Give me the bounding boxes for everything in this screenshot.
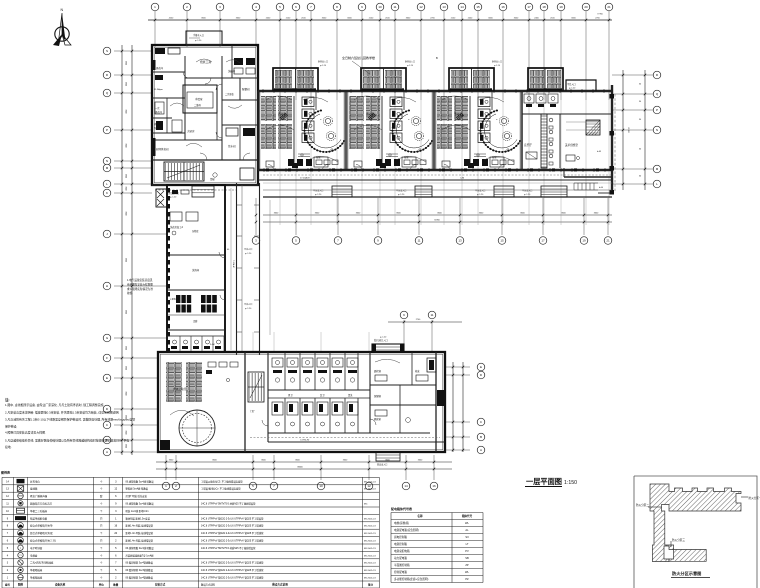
svg-text:19: 19: [582, 239, 586, 243]
classroom unit 3: [434, 68, 522, 170]
svg-text:单相暗插座: 单相暗插座: [30, 576, 43, 580]
grid row E: [114, 377, 158, 379]
grid line 10: [379, 11, 381, 100]
beaded play arc unit 3: [481, 111, 520, 153]
music room wiring: [170, 410, 194, 416]
svg-text:音乐厅: 音乐厅: [524, 143, 532, 147]
svg-text:51960: 51960: [434, 220, 440, 222]
grid row M: [114, 167, 152, 169]
svg-text:电源配电箱(应急照明): 电源配电箱(应急照明): [394, 528, 419, 532]
svg-text:ZP: ZP: [465, 563, 469, 567]
bottom block bottom bubble 12: [368, 455, 370, 480]
grid line 1: [154, 11, 156, 47]
legend row 3: [7, 560, 377, 565]
svg-text:MC-S02-C3: MC-S02-C3: [364, 489, 376, 491]
svg-text:3600: 3600: [125, 430, 127, 434]
bottom block offices: [370, 352, 436, 433]
grid line 12: [420, 11, 422, 100]
svg-text:MC: MC: [364, 504, 368, 506]
svg-text:3600: 3600: [125, 61, 127, 65]
svg-text:3600: 3600: [125, 109, 127, 113]
bottom block washrooms lower row: [268, 393, 370, 433]
corridor-side marks unit 3: [468, 163, 474, 168]
bed arrays unit 1: [261, 96, 276, 121]
lower grid bubble 13: [459, 198, 461, 235]
svg-text:求以现场实际情况为准: 求以现场实际情况为准: [127, 287, 153, 291]
top grid axis dimension line: [148, 19, 612, 21]
bed arrays unit 3: [437, 96, 452, 121]
grid line 14: [461, 11, 463, 100]
grid row F: [114, 357, 158, 359]
svg-text:μ+1.20: μ+1.20: [494, 65, 500, 67]
round tables unit 1: [323, 116, 332, 125]
grid line 20: [585, 11, 587, 100]
svg-text:MC-S02-C3: MC-S02-C3: [364, 481, 376, 483]
lower grid bubble 5: [295, 198, 297, 235]
classroom unit 2: [346, 68, 434, 170]
svg-text:14: 14: [404, 484, 408, 488]
svg-text:大厨房: 大厨房: [187, 129, 195, 133]
right grid row P: [612, 109, 653, 111]
music room extra marks: [206, 362, 238, 382]
south entrance steps bottom block: [376, 452, 400, 466]
grid line 2: [186, 11, 188, 47]
svg-text:MC-S02-C3: MC-S02-C3: [364, 518, 376, 520]
svg-text:1.电气设备安装高度见: 1.电气设备安装高度见: [127, 278, 153, 282]
svg-text:MC-S02-C3: MC-S02-C3: [364, 555, 376, 557]
svg-text:91.9Aμm: 91.9Aμm: [154, 88, 163, 91]
grid line 19: [560, 11, 562, 100]
svg-text:13: 13: [442, 5, 446, 9]
svg-text:11: 11: [393, 5, 396, 9]
corridor column dots: [266, 168, 599, 171]
svg-text:3600: 3600: [125, 258, 127, 262]
head block south wall and exit: [152, 168, 258, 185]
svg-text:3600: 3600: [125, 82, 127, 86]
lower grid bubble 9: [377, 198, 379, 235]
svg-text:μ+1.20: μ+1.20: [380, 336, 387, 338]
head block room labels: [154, 59, 253, 151]
svg-text:LT: LT: [466, 542, 469, 546]
grid line 15: [477, 11, 479, 100]
svg-text:3600: 3600: [125, 444, 127, 448]
svg-text:设备名称: 设备名称: [55, 583, 66, 587]
grid line 11: [394, 11, 396, 100]
svg-text:P: P: [106, 128, 108, 132]
svg-text:H: H: [106, 284, 108, 288]
fire zone labels: [741, 496, 748, 498]
svg-text:SB: SB: [465, 556, 469, 560]
svg-text:MC-S02-C3: MC-S02-C3: [364, 526, 376, 528]
svg-text:电源控制箱: 电源控制箱: [394, 542, 407, 546]
grid row C: [114, 424, 158, 426]
bottom block outer walls: [158, 352, 445, 452]
toilet black fixtures near south wall unit 3: [464, 159, 470, 166]
stage circle: [179, 410, 215, 446]
east dashed outer boundary: [614, 94, 616, 193]
left wing outer walls: [167, 185, 225, 352]
svg-text:配餐间: 配餐间: [242, 87, 250, 91]
svg-text:动力配电箱: 动力配电箱: [394, 556, 407, 560]
svg-text:21300: 21300: [627, 127, 629, 133]
svg-text:μ+1.20: μ+1.20: [569, 88, 576, 90]
legend symbol table: [1, 470, 379, 588]
svg-text:箱体代号: 箱体代号: [462, 514, 473, 518]
svg-text:备注: 备注: [367, 583, 374, 587]
svg-text:3600: 3600: [125, 391, 127, 395]
svg-text:紧急广播扬声器: 紧急广播扬声器: [30, 494, 48, 498]
svg-text:图例: 图例: [18, 583, 24, 587]
right grid row L: [612, 183, 653, 185]
svg-text:E: E: [480, 365, 482, 369]
open area furniture unit 2: [404, 160, 410, 165]
right grid row R: [612, 74, 653, 76]
svg-text:E: E: [106, 376, 108, 380]
distribution box code table: [391, 506, 483, 583]
small note block near grid H: [127, 278, 153, 295]
svg-text:μ+1.20: μ+1.20: [407, 65, 413, 67]
corridor-side marks unit 1: [292, 163, 298, 168]
svg-text:平面图控制箱: 平面图控制箱: [394, 563, 410, 567]
grid row A: [114, 451, 158, 453]
wiring arcs unit 1: [266, 96, 292, 100]
east multi-purpose rooms: [522, 68, 615, 195]
bottom block right bubble D: [445, 374, 470, 376]
bottom block bottom bubble 14: [405, 455, 407, 480]
svg-text:编号: 编号: [5, 583, 11, 587]
head block partitions: [152, 45, 258, 160]
east service shaft with rungs: [541, 114, 547, 168]
north arrow: [53, 8, 71, 46]
signature mark unit 2: [368, 113, 376, 120]
svg-text:7.20A-M: 7.20A-M: [232, 260, 235, 268]
svg-text:μ+1.20: μ+1.20: [245, 308, 252, 310]
svg-text:美术创想室: 美术创想室: [565, 143, 578, 147]
music activity room: [160, 352, 245, 452]
left grid vertical dimension lines: [121, 45, 123, 455]
window sill ticks top wall: [263, 89, 604, 93]
fire zone 1 hatched L-shape: [650, 484, 741, 562]
svg-text:17: 17: [541, 239, 545, 243]
washroom fixture column unit 3: [478, 97, 490, 107]
svg-text:C1790-90: C1790-90: [300, 440, 310, 442]
round tables unit 2: [411, 116, 420, 125]
bottom block bottom bubble 10: [320, 455, 322, 480]
left wing toilet cells bottom: [167, 336, 225, 351]
signature mark unit 3: [456, 113, 464, 120]
svg-text:PV: PV: [465, 549, 469, 553]
sleep-room bump unit 3: [449, 68, 494, 91]
svg-text:16: 16: [501, 5, 505, 9]
fire compartment diagram frame: [634, 476, 760, 588]
svg-text:1:150: 1:150: [564, 480, 577, 486]
svg-text:一层平面图: 一层平面图: [526, 477, 562, 486]
svg-text:C-M: C-M: [460, 178, 464, 180]
toilet black fixtures near south wall unit 2: [376, 159, 382, 166]
lower grid bubble 11: [418, 198, 420, 235]
svg-text:77700: 77700: [597, 14, 603, 16]
svg-text:19: 19: [559, 5, 563, 9]
drawing title: [525, 477, 577, 487]
svg-text:MC-S02-C3: MC-S02-C3: [364, 541, 376, 543]
right grid dimension lines: [622, 70, 624, 190]
svg-text:μ+1.20: μ+1.20: [315, 194, 322, 196]
left wing partitions: [167, 225, 225, 330]
svg-text:防火分区一: 防火分区一: [749, 496, 760, 500]
bottom block bottom bubble 1: [165, 455, 167, 480]
grid line 9: [361, 11, 363, 100]
svg-text:组合式单相暗开关/双: 组合式单相暗开关/双: [30, 531, 53, 535]
signature mark unit 1: [280, 113, 288, 120]
svg-text:疏散指示方向标志灯: 疏散指示方向标志灯: [30, 502, 53, 506]
svg-text:晨检室: 晨检室: [374, 369, 382, 373]
main entrance bump top: [372, 336, 404, 352]
svg-text:μ+1.20: μ+1.20: [320, 65, 326, 67]
svg-text:校核.: 校核.: [127, 291, 133, 295]
svg-text:电视盒: 电视盒: [30, 553, 38, 557]
svg-text:K: K: [106, 191, 108, 195]
svg-text:烧水间: 烧水间: [228, 144, 236, 148]
svg-text:注:: 注:: [5, 397, 10, 402]
general notes paragraph: [5, 397, 135, 449]
svg-text:B: B: [480, 435, 482, 439]
svg-text:电源总配电箱: 电源总配电箱: [394, 549, 410, 553]
head block inner room library: [183, 85, 217, 113]
legend row 编号: [5, 583, 374, 587]
bottom block top bubble 9: [403, 320, 405, 352]
svg-text:厨师休息间: 厨师休息间: [156, 147, 169, 151]
svg-text:M-: M-: [227, 249, 230, 251]
svg-text:防火分区二: 防火分区二: [636, 503, 649, 507]
window sill ticks south wall: [264, 168, 605, 172]
head west wall poche: [152, 60, 156, 156]
top wing corridor and south walkway: [258, 175, 612, 197]
svg-text:组合式单相暗开关(三只): 组合式单相暗开关(三只): [30, 539, 56, 543]
svg-text:μ+1.20: μ+1.20: [524, 194, 531, 196]
svg-text:WL: WL: [465, 521, 469, 525]
grid row Q: [114, 92, 152, 94]
bottom block right bubble E: [445, 366, 470, 368]
bottom block bottom bubble 7: [273, 455, 275, 480]
service cart entry bump on top: [186, 31, 222, 45]
svg-text:敷设方式说明: 敷设方式说明: [271, 583, 288, 587]
svg-text:F: F: [106, 356, 108, 360]
grid line 13: [443, 11, 445, 100]
legend row 10: [6, 508, 148, 513]
svg-text:MC-S02-C3: MC-S02-C3: [364, 533, 376, 535]
legend row 2: [7, 567, 377, 572]
head block stair: [164, 162, 204, 181]
legend row 1: [7, 575, 377, 580]
svg-text:μ+1.20: μ+1.20: [477, 194, 484, 196]
svg-text:名称: 名称: [417, 514, 423, 518]
svg-text:S: S: [106, 49, 108, 53]
svg-text:总等电位: 总等电位: [30, 479, 40, 483]
svg-text:活动室: 活动室: [366, 112, 374, 116]
grid line 6: [295, 11, 297, 100]
svg-text:AL: AL: [465, 528, 469, 532]
svg-text:防火分区示意图: 防火分区示意图: [672, 570, 701, 577]
fire zone 2 hatched bottom bar: [669, 550, 706, 562]
svg-text:门厅: 门厅: [250, 409, 255, 413]
svg-text:N: N: [106, 159, 108, 163]
svg-text:11: 11: [430, 313, 433, 317]
svg-text:保护敷设.: 保护敷设.: [5, 423, 18, 428]
svg-text:1.图中, 虚线框所示设备, 由专业厂家深化, 凡与土建有矛: 1.图中, 虚线框所示设备, 由专业厂家深化, 凡与土建有矛盾时, 随工程调整实…: [5, 402, 104, 407]
lower grid bubble 21: [607, 198, 609, 235]
bottom block bottom dim lines: [156, 461, 452, 463]
beaded play arc unit 1: [305, 111, 344, 153]
corridor centerline bottom block: [250, 438, 440, 442]
svg-text:数量: 数量: [113, 583, 119, 587]
svg-text:3600: 3600: [125, 346, 127, 350]
grid line 4: [255, 11, 257, 47]
bottom block right bubble B: [445, 436, 470, 438]
svg-text:图例表: 图例表: [1, 470, 11, 475]
grid row S: [114, 50, 152, 52]
classroom unit 1: [258, 68, 346, 170]
svg-text:3600: 3600: [125, 366, 127, 370]
svg-text:防火分区三: 防火分区三: [672, 538, 685, 542]
svg-text:A: A: [106, 450, 108, 454]
svg-text:21: 21: [607, 5, 611, 9]
laundry marks top room: [170, 190, 198, 235]
east stairs fan: [586, 120, 600, 135]
svg-text:洗消间: 洗消间: [192, 268, 200, 272]
bottom block washrooms upper row: [268, 352, 445, 442]
svg-text:15: 15: [500, 239, 504, 243]
svg-text:配电箱体代号表: 配电箱体代号表: [391, 506, 413, 511]
svg-text:P: P: [656, 108, 658, 112]
svg-text:13: 13: [458, 239, 462, 243]
svg-text:3-4M: 3-4M: [210, 344, 215, 346]
doors unit 2: [411, 165, 417, 171]
kitchen service entry below head block: [155, 186, 236, 199]
sleep-room bump unit 2: [361, 68, 406, 91]
svg-text:暗装单相配电箱: 暗装单相配电箱: [30, 516, 48, 520]
svg-text:16: 16: [432, 484, 436, 488]
svg-text:弱电控制箱: 弱电控制箱: [394, 535, 407, 539]
svg-text:电子时钟盒: 电子时钟盒: [30, 546, 43, 550]
grid row R: [114, 74, 152, 76]
svg-text:3600: 3600: [125, 143, 127, 147]
legend row 13: [6, 486, 376, 492]
svg-text:单位: 单位: [99, 583, 105, 587]
svg-text:接地.: 接地.: [5, 444, 12, 449]
left wing annex cell: [156, 189, 167, 207]
bottom block top dim line: [388, 321, 462, 323]
grid line 5: [279, 11, 281, 100]
svg-text:电梯(货梯)箱: 电梯(货梯)箱: [394, 521, 409, 525]
svg-text:3600: 3600: [125, 174, 127, 178]
grid line 18: [543, 11, 545, 100]
bottom block bottom bubble 16: [433, 455, 435, 480]
east top strip toilet cells: [524, 94, 558, 107]
svg-text:21: 21: [606, 239, 610, 243]
doors unit 1: [323, 165, 329, 171]
svg-text:全日制六班幼儿园教学楼: 全日制六班幼儿园教学楼: [342, 55, 375, 60]
grid line 16: [502, 11, 504, 100]
svg-text:17.20A-M: 17.20A-M: [300, 177, 310, 180]
legend row 6: [7, 537, 377, 543]
svg-text:活动室: 活动室: [278, 112, 286, 116]
grid row B: [114, 439, 158, 441]
sleep-room bump east with toilets: [528, 68, 563, 91]
left wing west wall dashes: [167, 188, 170, 353]
round tables unit 3: [499, 116, 508, 125]
kitchen equipment black fixtures: [155, 48, 255, 136]
bottom block bottom bubble 5: [252, 455, 254, 480]
grid row K: [114, 192, 152, 194]
lower grid bubble 3: [255, 198, 257, 235]
left wing label texts: [210, 249, 230, 346]
construction grid lines above bottom block: [253, 332, 369, 352]
corridor-side marks unit 2: [380, 163, 386, 168]
svg-text:2.凡安装高度未注明者: 插座距地0.3米安装, 开关距地1: 2.凡安装高度未注明者: 插座距地0.3米安装, 开关距地1.3米安装均为暗装,…: [5, 409, 120, 414]
grid line 17: [528, 11, 530, 100]
grid line 3: [219, 11, 221, 47]
walkway mid line: [263, 189, 612, 191]
svg-text:3.凡与消防有关工程1.2米E-10以下线路需穿钢管保护敷设: 3.凡与消防有关工程1.2米E-10以下线路需穿钢管保护敷设时, 需做防腐处理,…: [5, 416, 135, 421]
legend row 7: [7, 530, 377, 536]
svg-text:36600: 36600: [297, 467, 303, 469]
wiring arcs unit 3: [442, 96, 468, 100]
building title label above wing: [342, 55, 438, 74]
bottom block top bubble 11: [431, 320, 433, 352]
svg-text:18: 18: [542, 5, 546, 9]
legend row 4: [7, 552, 377, 557]
grid row P: [114, 129, 152, 131]
bottom block east wall: [427, 352, 444, 452]
svg-text:N: N: [61, 8, 64, 12]
svg-text:PZ: PZ: [465, 577, 469, 581]
right grid row M: [612, 168, 653, 170]
legend row 14: [6, 479, 376, 483]
legend row 11: [6, 501, 368, 506]
svg-text:15: 15: [476, 5, 480, 9]
svg-text:SII: SII: [465, 535, 468, 539]
svg-text:3600: 3600: [125, 211, 127, 215]
svg-text:μ+1.20: μ+1.20: [245, 253, 252, 255]
right grid row Q: [612, 93, 653, 95]
svg-text:12: 12: [419, 5, 423, 9]
top wing outer walls: [258, 85, 612, 193]
svg-text:多功能控制箱(走廊+应急照明): 多功能控制箱(走廊+应急照明): [394, 577, 429, 581]
lower grid bubble 17: [542, 198, 544, 235]
grid row H: [114, 285, 168, 287]
grid line 7: [310, 11, 312, 100]
svg-text:单相暗插座: 单相暗插座: [30, 568, 43, 572]
legend row 12: [6, 493, 147, 499]
grid line 8: [336, 11, 338, 100]
right grid row N: [612, 129, 653, 131]
head block outer walls: [152, 45, 258, 185]
head block wiring arcs: [170, 59, 242, 147]
svg-text:10: 10: [378, 5, 382, 9]
east wall corner dots: [610, 94, 615, 195]
svg-text:控制配电箱: 控制配电箱: [394, 570, 407, 574]
svg-text:11: 11: [417, 239, 420, 243]
svg-text:系统图及安装大样图要: 系统图及安装大样图要: [127, 282, 153, 286]
svg-text:5.凡穿越伸缩缝处管线, 需做好跨接伸缩处理以及所有管线跨越: 5.凡穿越伸缩缝处管线, 需做好跨接伸缩处理以及所有管线跨越结构缝时按规范要求做…: [5, 438, 129, 443]
svg-text:3600: 3600: [125, 310, 127, 314]
svg-text:单相二三孔插座: 单相二三孔插座: [30, 509, 48, 513]
svg-text:组合式单相暗开关/单: 组合式单相暗开关/单: [30, 524, 53, 528]
bottom block right dim lines: [452, 362, 454, 452]
grid row J: [114, 233, 168, 235]
east room piano and marks: [526, 122, 600, 161]
svg-text:20: 20: [584, 5, 588, 9]
